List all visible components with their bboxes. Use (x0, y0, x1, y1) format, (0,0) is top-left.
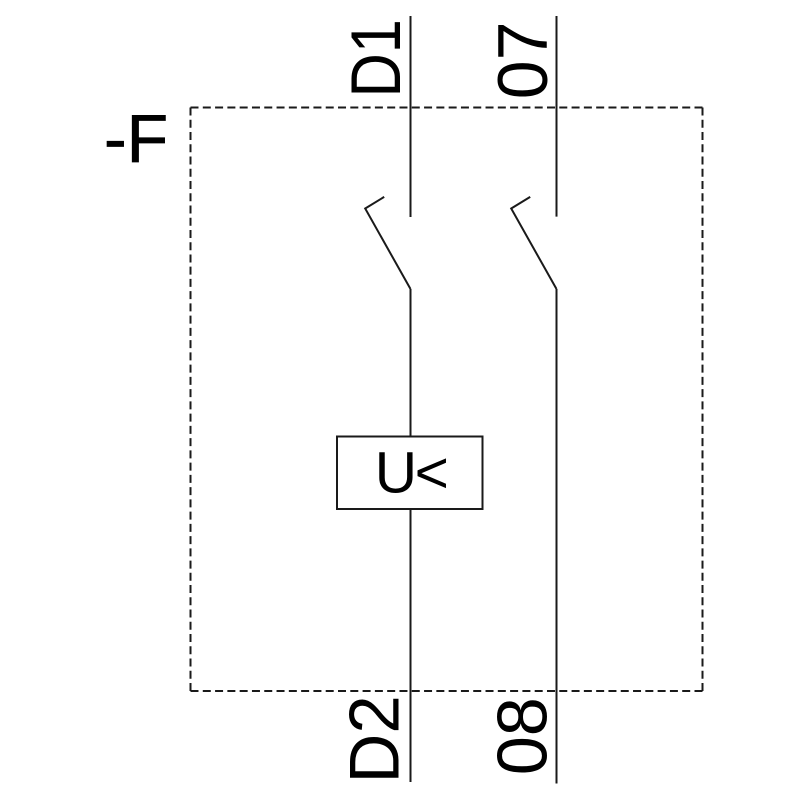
breaker contact left pole (moving blade with hook) (365, 197, 410, 289)
wire left pole top (D1 terminal) (410, 16, 412, 217)
svg-text:-F: -F (104, 101, 168, 177)
dashed enclosure right border (702, 108, 704, 692)
svg-text:07: 07 (483, 22, 562, 100)
dashed enclosure bottom border (191, 690, 703, 692)
wire right pole bottom (contact to 08 terminal) (556, 289, 558, 784)
wire left pole bottom (U< box to D2 terminal) (410, 509, 412, 782)
wire left pole middle (contact to U< box) (410, 289, 412, 437)
svg-text:08: 08 (482, 697, 561, 775)
breaker contact right pole (moving blade with hook) (511, 197, 556, 289)
svg-text:D1: D1 (336, 19, 415, 97)
svg-text:D2: D2 (334, 695, 413, 783)
undervoltage release box U< (337, 437, 483, 510)
wire right pole top (07 terminal) (556, 16, 558, 217)
dashed enclosure left border (190, 108, 192, 692)
dashed enclosure top border (191, 107, 703, 109)
svg-text:U<: U< (375, 441, 447, 506)
